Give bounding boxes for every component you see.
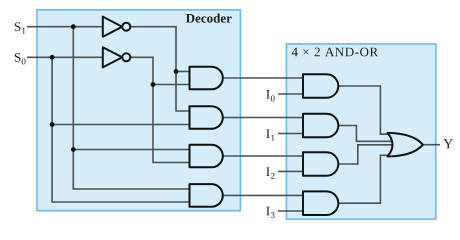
AND gate A3 (decoder minterm 2): [190, 145, 223, 168]
label I3: [266, 207, 274, 218]
inverter U2 (S0 complement): [103, 47, 131, 67]
wire NOT U1 output to AND A2 top input: [130, 27, 189, 111]
4x2 AND-OR block region: [286, 44, 435, 219]
OR gate (output Y): [388, 133, 423, 157]
label Decoder: [186, 13, 232, 22]
junction on S0 line: [50, 55, 55, 60]
wire I0 stub to AND B1 bottom input: [278, 93, 303, 95]
wire AND B3 output to OR lower-middle input: [338, 145, 392, 164]
junction on NOT U1 output vertical: [174, 69, 179, 74]
AND gate B4 (I3 term): [303, 191, 338, 215]
wire decoder A2 output to AND B2 top input: [223, 117, 303, 119]
wire S1 input lead: [27, 26, 103, 28]
label 4 x 2 AND-OR: [292, 48, 378, 57]
AND gate B1 (I0 term): [303, 74, 338, 98]
junction on S1 line: [71, 24, 76, 29]
wire S1 vertical branch to AND A4 top input: [73, 27, 189, 189]
AND gate B3 (I2 term): [303, 152, 338, 176]
AND gate A1 (decoder minterm 0): [190, 67, 223, 90]
label S1: [15, 22, 25, 33]
wire AND B1 output to OR top input: [338, 86, 390, 134]
AND gate B2 (I1 term): [303, 114, 338, 138]
label I1: [266, 129, 274, 140]
wire S0 vertical branch to AND A4 bottom input: [52, 57, 189, 202]
label I2: [266, 167, 274, 178]
label S0: [15, 53, 26, 64]
wire S0 input lead: [27, 56, 103, 58]
wire AND B2 output to OR upper-middle input: [338, 126, 392, 142]
wire OR output to Y: [423, 144, 440, 146]
wire NOT U2 output to AND A3 bottom input: [130, 57, 189, 162]
inverter U1 (S1 complement): [103, 17, 131, 37]
wire NOT U2 output branch to AND A1 bottom input: [153, 84, 190, 86]
junction on NOT U2 output vertical: [151, 82, 156, 87]
label Y: [443, 139, 453, 148]
junction on S1 vertical: [71, 147, 76, 152]
junction on S0 vertical: [50, 122, 55, 127]
wire decoder A4 output to AND B4 top input: [223, 194, 303, 196]
wire NOT U1 output branch to AND A1 top input: [176, 71, 190, 73]
wire I1 stub to AND B2 bottom input: [278, 133, 303, 135]
wire S0 branch to AND A2 bottom input: [52, 124, 189, 126]
wire AND B4 output to OR bottom input: [338, 155, 390, 203]
wire I2 stub to AND B3 bottom input: [278, 170, 303, 172]
wire I3 stub to AND B4 bottom input: [278, 210, 303, 212]
AND gate A2 (decoder minterm 1): [190, 106, 223, 129]
AND gate A4 (decoder minterm 3): [190, 184, 223, 207]
wire decoder A1 output to AND B1 top input: [223, 77, 303, 79]
decoder block region: [37, 10, 240, 211]
wire S1 branch to AND A3 top input: [73, 149, 189, 151]
label I0: [266, 90, 274, 101]
wire decoder A3 output to AND B3 top input: [223, 155, 303, 157]
